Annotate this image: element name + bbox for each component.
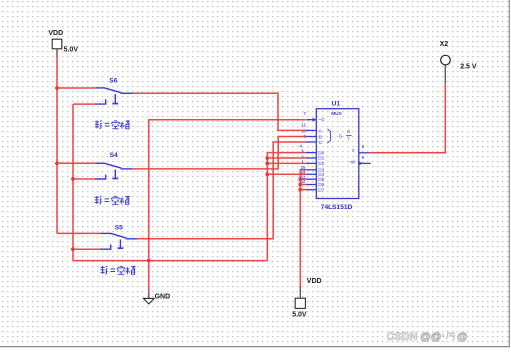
svg-text:5.0V: 5.0V	[292, 311, 307, 318]
multiplexer U1 74LS151D body	[316, 109, 359, 199]
S5 key label: 键 = 空格	[101, 266, 136, 275]
U1 select bracket	[327, 129, 330, 143]
S6 key label: 键 = 空格	[95, 120, 129, 128]
watermark CSDN @@小马@	[387, 331, 468, 343]
junction D6	[298, 183, 302, 187]
wire VDD2 column x=300.3 (feeds D3,D5,D6,D7)	[300, 170, 306, 286]
svg-text:2.5 V: 2.5 V	[460, 63, 477, 70]
svg-text:VDD: VDD	[48, 30, 63, 37]
wire to pin D6	[300, 184, 306, 186]
wire D-input ground column x=267.3 (feeds D0,D1,D2,D4)	[267, 153, 306, 261]
svg-text:D7: D7	[318, 187, 324, 193]
wire VDD rail vertical x=57	[56, 57, 58, 234]
switch S6	[95, 88, 132, 104]
junction D1	[265, 156, 269, 160]
wire VDD to S4 top throw	[57, 162, 95, 164]
ground symbol GND	[143, 293, 154, 304]
wire net B: S4 output to pin B	[132, 137, 306, 169]
U1 enable pin arrow	[313, 118, 317, 122]
svg-text:D6: D6	[318, 182, 324, 188]
power source VDD (bottom)	[295, 286, 305, 308]
wire to pin D2	[267, 162, 306, 164]
wire bottom horizontal y=260.6 to D-input ground column	[73, 260, 267, 262]
junction rail / S4 lower throw	[71, 177, 75, 181]
svg-text:S4: S4	[110, 152, 118, 159]
junction VDD rail / S6 top	[55, 86, 59, 90]
junction VDD rail / S4 top	[55, 161, 59, 165]
wire net A: S6 output to pin A	[132, 93, 306, 130]
svg-text:G: G	[339, 133, 343, 139]
U1 right pin stub W with arrow	[359, 162, 371, 164]
switch S5	[100, 233, 138, 249]
junction D4	[265, 172, 269, 176]
svg-text:5.0V: 5.0V	[64, 46, 79, 53]
wire Y output to probe X2	[369, 83, 445, 153]
svg-text:D1: D1	[318, 156, 324, 162]
wire to pin D5	[300, 178, 306, 180]
svg-text:10: 10	[301, 128, 306, 133]
svg-text:D5: D5	[318, 177, 324, 183]
svg-text:7: 7	[347, 137, 350, 143]
ground-throw rail vertical x=73 (S6/S4/S5 lower throws to GND)	[72, 104, 74, 261]
svg-text:U1: U1	[332, 100, 341, 107]
svg-text:74LS151D: 74LS151D	[321, 204, 353, 211]
svg-text:~G: ~G	[318, 117, 325, 123]
wire rail to S4 lower throw	[73, 178, 95, 180]
svg-text:GND: GND	[155, 294, 171, 301]
svg-text:S5: S5	[115, 225, 123, 232]
wire rail to S5 lower throw	[73, 248, 100, 250]
wire to pin D7	[300, 189, 306, 191]
junction D2	[265, 162, 269, 166]
svg-text:B: B	[319, 135, 322, 141]
U1 right pin stub Y	[359, 152, 370, 154]
wire net C: S5 output to pin C	[138, 142, 307, 239]
svg-text:0: 0	[347, 129, 350, 135]
wire to pin D4	[267, 173, 306, 175]
junction D7	[298, 188, 302, 192]
wire VDD rail to S5 top throw y=233.4	[57, 232, 101, 234]
canvas right border	[508, 0, 510, 347]
S4 key label: 键 = 空格	[95, 196, 130, 205]
power source VDD (top-left)	[52, 39, 62, 57]
svg-text:D0: D0	[318, 150, 324, 156]
svg-text:~W: ~W	[348, 159, 356, 165]
junction D5	[298, 177, 302, 181]
svg-text:11: 11	[301, 122, 306, 127]
svg-text:12: 12	[301, 179, 306, 184]
svg-text:MUX: MUX	[331, 111, 342, 117]
U1 left pin stubs	[306, 120, 316, 190]
wire VDD to S6 top throw	[57, 87, 95, 89]
svg-text:X2: X2	[440, 41, 449, 48]
wire to pin D1	[267, 157, 306, 159]
svg-text:S6: S6	[109, 78, 117, 85]
wire rail to S6 lower throw	[73, 103, 95, 105]
wire GND rail vertical x=148.8 and to pin ~G	[149, 120, 306, 294]
junction rail / S5 lower throw	[71, 247, 75, 251]
switch S4	[95, 163, 132, 179]
svg-text:VDD: VDD	[307, 278, 322, 285]
svg-text:D2: D2	[318, 161, 324, 167]
svg-text:C: C	[319, 140, 323, 146]
svg-text:CSDN @@: CSDN @@	[387, 331, 442, 343]
svg-text:@: @	[457, 331, 468, 343]
canvas bottom border	[0, 346, 510, 348]
probe X2	[441, 55, 451, 83]
junction bottom wire / GND rail	[147, 259, 151, 263]
